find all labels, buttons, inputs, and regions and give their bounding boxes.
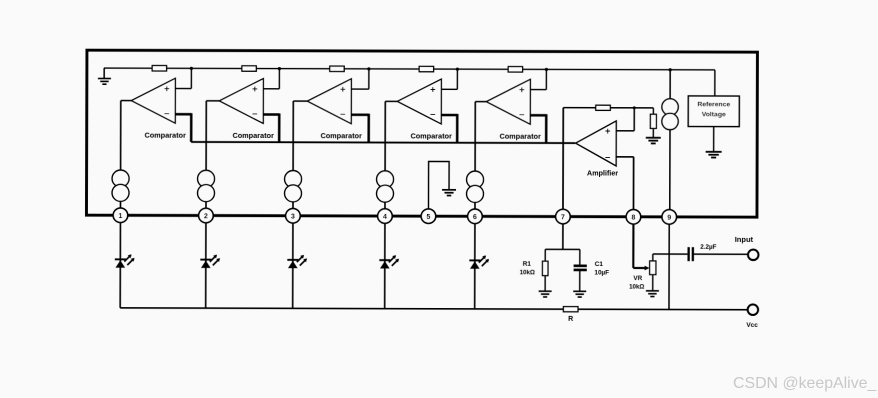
svg-text:Amplifier: Amplifier xyxy=(587,168,618,177)
svg-text:7: 7 xyxy=(561,214,565,221)
svg-text:C1: C1 xyxy=(595,261,604,268)
svg-text:Input: Input xyxy=(735,235,754,244)
svg-text:CSDN @keepAlive_: CSDN @keepAlive_ xyxy=(733,375,877,392)
svg-text:2.2µF: 2.2µF xyxy=(700,244,716,251)
svg-text:4: 4 xyxy=(383,214,387,221)
svg-text:+: + xyxy=(605,126,611,137)
svg-text:10kΩ: 10kΩ xyxy=(520,269,535,276)
svg-text:5: 5 xyxy=(426,214,430,221)
svg-text:R: R xyxy=(568,316,573,323)
svg-text:+: + xyxy=(519,85,525,96)
svg-text:–: – xyxy=(519,109,524,120)
svg-text:–: – xyxy=(430,109,435,120)
svg-text:6: 6 xyxy=(473,214,477,221)
svg-text:3: 3 xyxy=(291,213,295,220)
svg-text:+: + xyxy=(430,85,436,96)
svg-text:–: – xyxy=(252,108,257,119)
svg-text:2: 2 xyxy=(204,213,208,220)
svg-text:10kΩ: 10kΩ xyxy=(629,283,644,290)
svg-text:Comparator: Comparator xyxy=(320,131,362,140)
svg-text:Comparator: Comparator xyxy=(232,131,274,140)
svg-text:8: 8 xyxy=(631,214,635,221)
svg-text:Voltage: Voltage xyxy=(702,111,726,118)
svg-text:1: 1 xyxy=(118,213,122,220)
svg-text:+: + xyxy=(252,84,258,95)
svg-text:VR: VR xyxy=(633,275,642,282)
svg-text:Comparator: Comparator xyxy=(499,132,541,141)
svg-text:–: – xyxy=(340,109,345,120)
svg-text:+: + xyxy=(164,84,170,95)
svg-text:10µF: 10µF xyxy=(594,269,609,276)
svg-text:–: – xyxy=(605,152,610,163)
svg-text:Reference: Reference xyxy=(697,101,730,108)
svg-text:R1: R1 xyxy=(523,261,532,268)
svg-text:Comparator: Comparator xyxy=(144,131,186,140)
svg-text:Vcc: Vcc xyxy=(746,322,758,329)
svg-text:–: – xyxy=(164,108,169,119)
svg-text:+: + xyxy=(340,84,346,95)
svg-text:Comparator: Comparator xyxy=(410,131,452,140)
svg-text:9: 9 xyxy=(667,215,671,222)
